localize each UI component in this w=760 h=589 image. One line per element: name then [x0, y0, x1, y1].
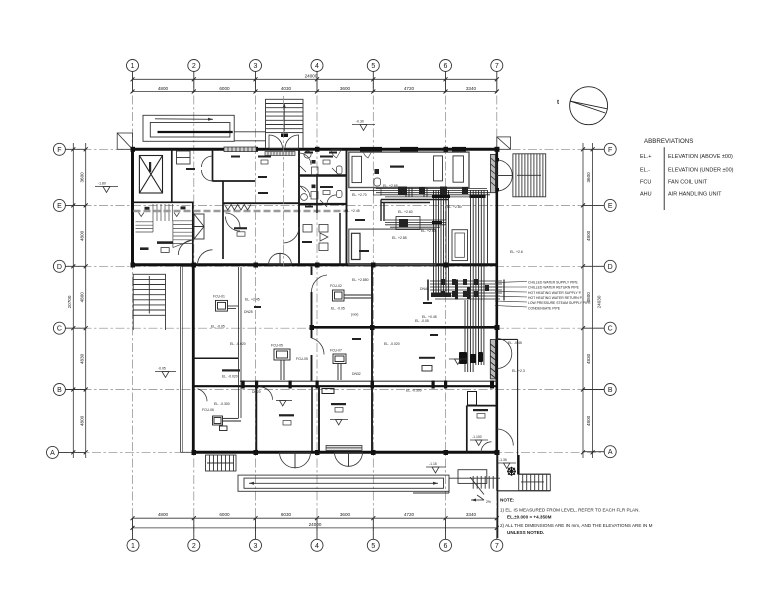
left dimension lines	[73, 143, 85, 458]
shaft hatch on right wall upper	[491, 154, 496, 192]
svg-text:FCU-05: FCU-05	[271, 344, 283, 348]
svg-text:FCU-01: FCU-01	[213, 295, 225, 299]
svg-text:4800: 4800	[80, 230, 85, 241]
svg-text:CHILLED WATER SUPPLY PIPE: CHILLED WATER SUPPLY PIPE	[528, 280, 579, 284]
entrance double door below top stair	[269, 134, 299, 149]
entrance canopy/ramp top-left	[143, 115, 266, 141]
svg-text:3600: 3600	[80, 172, 85, 183]
washbasin counter zigzag	[225, 205, 251, 211]
extra small labels and blobs	[149, 152, 438, 341]
svg-text:2: 2	[192, 63, 196, 70]
svg-text:LOW PRESSURE STEAM SUPPLY PIPE: LOW PRESSURE STEAM SUPPLY PIPE	[528, 301, 591, 305]
svg-text:4720: 4720	[404, 512, 415, 517]
svg-text:1: 1	[131, 63, 135, 70]
top dim ticks	[131, 77, 499, 93]
door right wall lower	[497, 429, 514, 446]
changing room door arcs	[226, 213, 241, 228]
grid row centerlines	[59, 149, 604, 452]
svg-text:EL. -0.05: EL. -0.05	[211, 325, 225, 329]
svg-text:-1.80: -1.80	[98, 182, 106, 186]
bottom-right external stair	[519, 455, 551, 491]
svg-text:C: C	[57, 326, 62, 333]
svg-text:EL. -0.300: EL. -0.300	[406, 389, 422, 393]
left external stair near D	[133, 274, 165, 330]
wall x319 B to A	[318, 387, 320, 453]
AHU room	[349, 152, 469, 187]
door arc stair room	[178, 240, 193, 255]
svg-text:UNLESS NOTED.: UNLESS NOTED.	[507, 530, 544, 535]
bottom-left corner mark	[181, 266, 194, 452]
riser elbow joints	[432, 195, 486, 224]
double doors in bottom wall	[280, 452, 363, 468]
svg-text:3: 3	[254, 543, 258, 550]
door power room	[260, 387, 273, 400]
pipe labels	[528, 280, 591, 310]
elevation marker below wall 2	[498, 463, 516, 469]
top grid circles 1-7	[127, 60, 503, 93]
right extension wall	[497, 339, 551, 491]
svg-text:HOT HEATING WATER RETURN P.: HOT HEATING WATER RETURN P.	[528, 296, 583, 300]
window hatch strip on F wall left section	[224, 147, 256, 152]
partial wall y358	[193, 357, 238, 359]
window strip bottom wall	[326, 445, 362, 450]
svg-text:EL. -0.05: EL. -0.05	[331, 307, 345, 311]
svg-text:FCU-06: FCU-06	[202, 408, 214, 412]
svg-text:-0.30: -0.30	[356, 120, 364, 124]
svg-text:DN25: DN25	[244, 310, 253, 314]
hall C wall	[311, 326, 497, 329]
svg-text:F: F	[608, 147, 612, 154]
svg-text:C: C	[608, 326, 613, 333]
room label power	[279, 414, 294, 416]
wall x311 D to B	[311, 266, 313, 275]
pump blobs	[459, 352, 483, 364]
svg-text:EL. -0.020: EL. -0.020	[230, 342, 246, 346]
NOTES bottom right	[500, 498, 653, 535]
building lower-left wall	[192, 265, 195, 454]
svg-text:3: 3	[254, 63, 258, 70]
fresh air room lower	[349, 229, 436, 265]
manifold valves	[431, 279, 489, 300]
svg-text:4030: 4030	[281, 86, 292, 91]
svg-text:4800: 4800	[586, 415, 591, 426]
AHU label	[390, 166, 404, 168]
FCU-01 pipes	[228, 267, 242, 418]
shaft hatch right wall lower	[490, 340, 495, 379]
flower symbol	[507, 467, 516, 476]
power room elevation marker	[276, 401, 292, 407]
top-right corner canopy mark	[497, 137, 511, 149]
svg-text:EL. +2.85: EL. +2.85	[392, 236, 407, 240]
top dim labels	[158, 74, 477, 91]
svg-text:2: 2	[192, 543, 196, 550]
bottom-left external stair	[206, 455, 237, 471]
svg-text:5: 5	[371, 543, 375, 550]
closet box in corridor top	[177, 151, 191, 164]
svg-text:A: A	[50, 450, 55, 457]
svg-text:1) EL. IS MEASURED FROM LEVEL,: 1) EL. IS MEASURED FROM LEVEL, REFER TO …	[500, 508, 640, 513]
building outer wall top (grid F)	[133, 148, 497, 151]
elevator shaft	[139, 156, 162, 194]
svg-text:D: D	[57, 264, 62, 271]
svg-text:F: F	[57, 147, 61, 154]
FCU-02	[333, 290, 373, 301]
svg-text:EL.+: EL.+	[640, 154, 651, 160]
svg-text:EL. +2.3: EL. +2.3	[512, 369, 525, 373]
grid column centerlines	[133, 79, 497, 531]
svg-text:24000: 24000	[309, 522, 322, 527]
svg-text:4800: 4800	[158, 512, 169, 517]
wall x299	[298, 149, 300, 264]
svg-text:ELEVATION (ABOVE ±00): ELEVATION (ABOVE ±00)	[668, 154, 733, 160]
shower room wall x341	[339, 213, 341, 265]
FCU-05	[274, 349, 290, 380]
svg-text:4720: 4720	[404, 86, 415, 91]
svg-text:7: 7	[495, 543, 499, 550]
svg-text:ABBREVIATIONS: ABBREVIATIONS	[644, 138, 693, 145]
room label machine	[473, 409, 488, 411]
svg-text:FCU-02: FCU-02	[330, 284, 342, 288]
left dim labels rotated	[67, 172, 85, 426]
svg-text:4800: 4800	[80, 415, 85, 426]
svg-text:6000: 6000	[219, 86, 230, 91]
top external stair	[266, 99, 304, 148]
leader lines to pipe labels	[495, 282, 527, 308]
FCU-06	[213, 416, 242, 431]
svg-text:FCU-05: FCU-05	[296, 357, 308, 361]
corridor door arc near D	[198, 250, 213, 265]
elevation marker left	[95, 187, 118, 193]
building outer wall left upper (grid 1)	[131, 148, 134, 266]
svg-text:AIR HANDLING UNIT: AIR HANDLING UNIT	[668, 192, 722, 198]
pipe drops below manifold	[465, 300, 484, 372]
svg-text:24000: 24000	[305, 74, 318, 79]
door wall x311	[312, 338, 325, 355]
room label activity	[331, 403, 346, 405]
svg-text:CHILLED WATER RETURN PIPE: CHILLED WATER RETURN PIPE	[528, 286, 580, 290]
svg-text:3600: 3600	[340, 86, 351, 91]
svg-text:FCU-07: FCU-07	[330, 349, 342, 353]
wall x312 B to A	[311, 387, 313, 453]
svg-text:EL. -0.300: EL. -0.300	[214, 402, 230, 406]
svg-text:4830: 4830	[586, 353, 591, 364]
double door right wall to extension mid	[497, 339, 512, 354]
window blocks on F wall at AHU room	[360, 147, 466, 152]
svg-text:FAN COIL UNIT: FAN COIL UNIT	[668, 180, 708, 186]
building outer wall right (grid 7)	[495, 148, 498, 455]
toilet partition y213	[299, 203, 347, 205]
elevation marker hall left	[155, 372, 176, 378]
svg-text:-1.35: -1.35	[499, 458, 507, 462]
svg-text:AHU: AHU	[640, 192, 652, 198]
svg-text:A: A	[608, 449, 613, 456]
svg-text:EL. +2.60: EL. +2.60	[421, 229, 436, 233]
closet box below B wall	[322, 389, 334, 394]
building bottom wall (grid A)	[192, 451, 498, 454]
svg-text:B: B	[608, 387, 613, 394]
toilet partition y174	[299, 174, 347, 177]
wall y203 hall side	[223, 202, 299, 204]
AHU vertical duct connections	[406, 188, 427, 198]
svg-text:D: D	[608, 264, 613, 271]
interior U stair	[136, 204, 193, 248]
door in wall x299 to hall	[283, 227, 299, 243]
door in B wall left	[198, 389, 208, 402]
svg-text:ELEVATION (UNDER ±00): ELEVATION (UNDER ±00)	[668, 168, 734, 174]
svg-text:EL. +2.65: EL. +2.65	[383, 184, 398, 188]
compartment grey dashed band	[134, 210, 347, 213]
grid 7 line to notes area	[497, 455, 499, 538]
room label hall	[222, 369, 240, 371]
svg-text:4830: 4830	[80, 353, 85, 364]
wall right of elevator	[171, 149, 173, 203]
slope arrow near notes	[471, 495, 484, 502]
bottom grid circles 1-7	[127, 518, 503, 552]
ceiling unit right	[422, 366, 432, 372]
bottom dimension lines	[133, 518, 497, 528]
duct elbows extra	[381, 200, 448, 222]
svg-text:3600: 3600	[586, 172, 591, 183]
main duct band below AHU	[350, 189, 490, 197]
toilet partition x317	[316, 174, 318, 213]
svg-text:EL. -0.020: EL. -0.020	[384, 342, 400, 346]
svg-text:EL. +0.45: EL. +0.45	[422, 315, 437, 319]
manifold rows	[428, 280, 504, 301]
elevation marker heat	[449, 359, 467, 365]
north arrow symbol	[570, 87, 608, 125]
building wall grid D	[133, 263, 497, 266]
right wall double door to stair	[495, 158, 513, 191]
svg-text:EL. +2.45: EL. +2.45	[345, 209, 360, 213]
stair room labels	[145, 207, 150, 210]
svg-text:3340: 3340	[466, 86, 477, 91]
door machine room	[481, 442, 492, 453]
misc small labels in duct zone	[211, 209, 525, 393]
svg-text:-1.15: -1.15	[429, 462, 437, 466]
svg-text:HOT HEATING WATER SUPPLY P.: HOT HEATING WATER SUPPLY P.	[528, 291, 582, 295]
svg-text:FCU: FCU	[640, 180, 651, 186]
svg-text:EL. +2.6: EL. +2.6	[510, 250, 523, 254]
doors on wall x212	[202, 156, 213, 167]
svg-text:DN20: DN20	[252, 390, 261, 394]
entrance threshold hatch	[265, 152, 295, 156]
svg-text:CONDENSATE PIPE: CONDENSATE PIPE	[528, 306, 561, 310]
wall x372 D to A	[371, 266, 373, 381]
wall x212	[212, 149, 214, 181]
svg-text:EL. +2.850: EL. +2.850	[352, 278, 369, 282]
duct fittings	[398, 187, 468, 196]
elevation marker top	[352, 125, 375, 131]
svg-text:EL. +2.80: EL. +2.80	[447, 205, 462, 209]
ABBREVIATIONS table	[640, 138, 734, 210]
changing room label	[234, 227, 247, 229]
svg-text:EL.±0.000 = +4.350M: EL.±0.000 = +4.350M	[507, 515, 552, 520]
svg-text:4: 4	[315, 543, 319, 550]
svg-text:EL. -0.020: EL. -0.020	[222, 375, 238, 379]
unit rect right	[452, 230, 468, 261]
elevator machine room	[467, 392, 497, 453]
svg-text:5: 5	[371, 63, 375, 70]
top-left corner canopy mark	[117, 133, 132, 149]
svg-text:4800: 4800	[586, 230, 591, 241]
right external stair near F	[513, 154, 546, 197]
B corridor walls	[193, 385, 497, 387]
stair room right wall	[192, 202, 194, 265]
FCU-07	[333, 354, 346, 380]
svg-text:-0.05: -0.05	[158, 367, 166, 371]
top rooms labels	[258, 156, 271, 158]
svg-text:NOTE:: NOTE:	[500, 498, 515, 503]
elevation marker activity	[330, 420, 348, 426]
svg-text:7: 7	[495, 63, 499, 70]
toilet stall diagonals	[300, 166, 338, 207]
svg-text:t: t	[557, 99, 559, 106]
svg-text:3340: 3340	[466, 512, 477, 517]
svg-text:E: E	[608, 203, 613, 210]
bottom ramp	[238, 475, 449, 491]
svg-text:4800: 4800	[158, 86, 169, 91]
toilet fixtures	[299, 149, 381, 241]
FCU-01	[216, 300, 228, 311]
right dimension lines	[583, 143, 593, 458]
column markers on B band	[242, 381, 495, 389]
svg-text:-1.100: -1.100	[472, 435, 482, 439]
svg-text:20700: 20700	[67, 295, 72, 308]
left grid circles F-A	[47, 143, 87, 458]
duct band B	[385, 217, 446, 230]
svg-text:EL. +2.60: EL. +2.60	[398, 210, 413, 214]
svg-text:24030: 24030	[597, 295, 602, 308]
svg-text:1: 1	[131, 543, 135, 550]
svg-text:2%: 2%	[486, 500, 491, 504]
elevation marker machine room	[470, 440, 488, 446]
vertical riser cluster 2	[471, 190, 488, 300]
wall x346	[346, 149, 348, 264]
svg-text:6030: 6030	[281, 512, 292, 517]
svg-text:EL. -0.05: EL. -0.05	[415, 319, 429, 323]
svg-text:EL. +2.45: EL. +2.45	[245, 298, 260, 302]
shaft boxes right of stair room	[194, 214, 204, 239]
stair room top wall	[133, 201, 193, 203]
svg-text:E: E	[57, 203, 62, 210]
elevation marker below wall 1	[426, 467, 446, 473]
vertical riser cluster 1	[434, 190, 449, 296]
svg-text:B: B	[57, 387, 62, 394]
top dimension line total 24000	[133, 79, 497, 91]
svg-text:EL. -0.45: EL. -0.45	[508, 341, 522, 345]
svg-text:2) ALL THE DIMENSIONS ARE IN m: 2) ALL THE DIMENSIONS ARE IN mm, AND THE…	[500, 523, 653, 528]
right grid circles F-A	[583, 143, 617, 457]
svg-text:3600: 3600	[340, 512, 351, 517]
svg-text:(xxx): (xxx)	[351, 313, 358, 317]
shower boxes	[303, 225, 328, 251]
bottom center stair and landing	[413, 470, 500, 495]
svg-text:6: 6	[444, 63, 448, 70]
sub-axis dash line x283	[283, 96, 285, 266]
svg-text:EL.-: EL.-	[640, 168, 650, 174]
svg-text:4: 4	[315, 63, 319, 70]
svg-text:DN32: DN32	[352, 372, 361, 376]
wall x223	[222, 181, 224, 259]
svg-text:DN40: DN40	[420, 287, 429, 291]
svg-text:EL. +2.70: EL. +2.70	[352, 193, 367, 197]
AHU units	[352, 156, 464, 183]
column markers on walls	[131, 147, 500, 455]
wall x256 B to A	[255, 387, 257, 453]
svg-text:6: 6	[444, 543, 448, 550]
svg-text:4800: 4800	[80, 292, 85, 303]
svg-text:6000: 6000	[219, 512, 230, 517]
double door in D wall	[269, 253, 281, 265]
wall y181	[213, 180, 256, 182]
